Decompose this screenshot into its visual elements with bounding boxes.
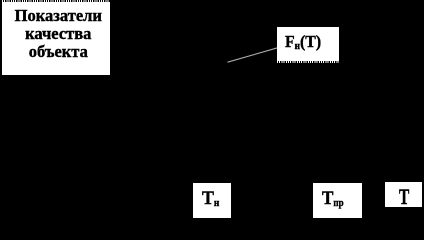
node: Т label box (time axis) xyxy=(385,182,422,207)
node: quality-indicators label box (Показатели качества объекта) xyxy=(2,2,110,75)
node: Тпр label box xyxy=(313,183,362,218)
node: Fн(T) label box sawtooth bottom edge xyxy=(277,61,339,63)
node: quality-indicators label box, sawtooth top edge xyxy=(2,0,110,2)
node: Fн(T) label box xyxy=(277,27,339,61)
node: Тн label box xyxy=(193,183,231,218)
